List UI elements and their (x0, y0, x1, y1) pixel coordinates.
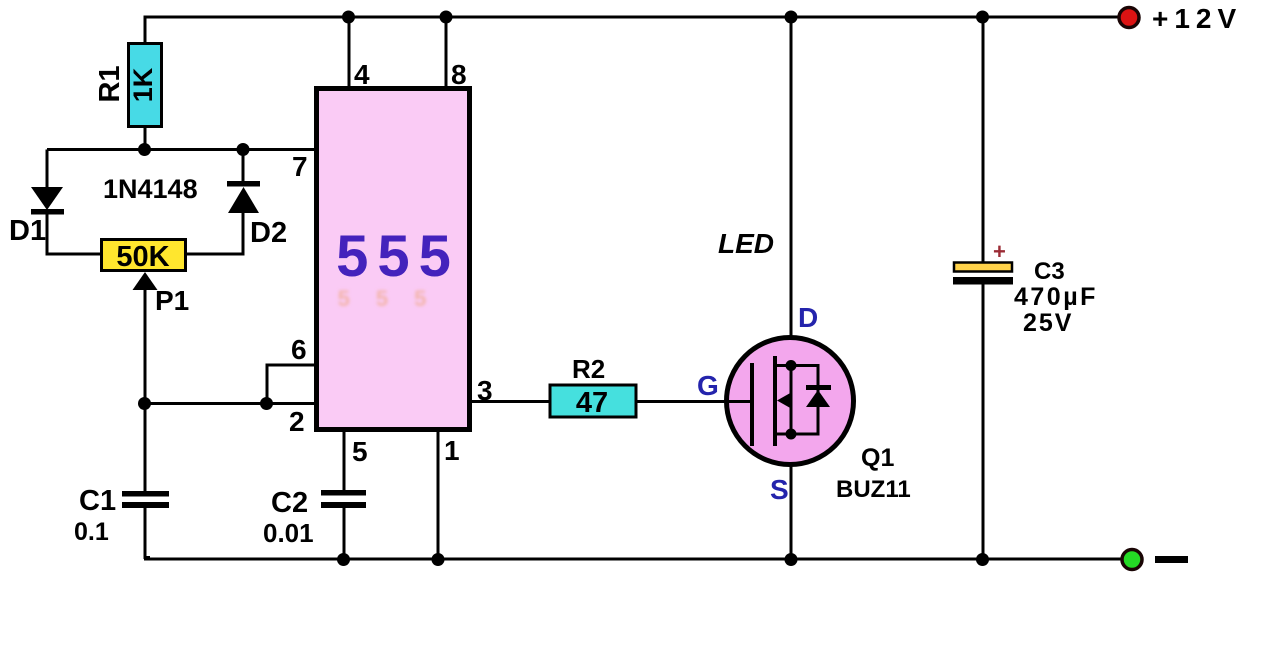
svg-text:LED: LED (718, 228, 774, 259)
diode D2 (227, 181, 260, 213)
label P1 (155, 285, 189, 316)
wire pin 2 (144, 402, 316, 405)
wire down to D1 (46, 150, 49, 189)
svg-text:1N4148: 1N4148 (103, 174, 198, 204)
value 50K (116, 241, 169, 273)
svg-text:D2: D2 (250, 217, 287, 249)
pin label 1 (444, 435, 460, 466)
svg-text:R1: R1 (94, 65, 126, 102)
resistor R2 (550, 385, 636, 417)
wire R1 bottom to junction (144, 127, 147, 150)
label C2 (271, 487, 308, 519)
svg-text:0.1: 0.1 (74, 518, 109, 546)
pin label 3 (477, 375, 493, 406)
wire horizontal to pin 7 (47, 148, 316, 151)
wire from top rail down to R1 (144, 16, 147, 45)
junction node source/ground (785, 553, 798, 566)
pin label 4 (354, 59, 370, 90)
pin label 7 (292, 151, 308, 182)
svg-text:25V: 25V (1023, 309, 1073, 337)
wire D2 top (242, 150, 245, 187)
junction node under R1 (138, 143, 151, 156)
Q1 body diode branch (791, 366, 831, 435)
node +12V terminal (1119, 8, 1139, 28)
svg-text:555: 555 (336, 224, 460, 289)
pin label 5 (352, 436, 368, 467)
wire C2 to ground rail (343, 508, 346, 560)
label D1 (9, 215, 46, 247)
svg-text:4: 4 (354, 59, 370, 90)
value 0.01 (263, 518, 314, 548)
junction node pin6/pin2 (260, 397, 273, 410)
svg-text:1K: 1K (128, 67, 158, 102)
svg-text:2: 2 (289, 406, 305, 437)
label D (drain) (798, 302, 818, 333)
svg-text:50K: 50K (116, 241, 169, 273)
svg-text:C2: C2 (271, 487, 308, 519)
label LED (718, 228, 774, 259)
svg-text:555: 555 (338, 286, 453, 311)
wiper arrow of P1 (133, 272, 158, 404)
wire D1 to pot (46, 214, 102, 254)
junction node pin2/C1 (138, 397, 151, 410)
transistor Q1 body (MOSFET circle) (727, 338, 854, 465)
Q1 drain-source internal wire (790, 365, 793, 434)
wire C3 bottom to ground rail (982, 284, 985, 560)
junction node pin8/rail (440, 11, 453, 24)
Q1 substrate arrow (777, 392, 792, 409)
capacitor C3 positive plate (954, 263, 1012, 272)
svg-text:0.01: 0.01 (263, 518, 314, 548)
svg-text:BUZ11: BUZ11 (836, 476, 911, 503)
capacitor C2 (321, 490, 366, 508)
junction node C3/ground rail (976, 553, 989, 566)
junction node pin1/ground (432, 553, 445, 566)
Q1 internal source node (786, 429, 797, 440)
svg-text:C1: C1 (79, 485, 116, 517)
label R1 (rotated) (94, 65, 126, 102)
resistor R1 (129, 44, 162, 127)
svg-text:C3: C3 (1034, 258, 1065, 285)
svg-text:47: 47 (576, 387, 608, 419)
value 25V (1023, 309, 1073, 337)
wire C3 top (982, 17, 985, 262)
wire D2 to pot (186, 212, 245, 256)
pin label 2 (289, 406, 305, 437)
svg-text:1: 1 (444, 435, 460, 466)
label D2 (250, 217, 287, 249)
svg-text:3: 3 (477, 375, 493, 406)
wire drain to top rail (LED line) (790, 17, 793, 340)
svg-text:Q1: Q1 (861, 444, 894, 472)
pin label 6 (291, 334, 307, 365)
svg-text:R2: R2 (572, 354, 605, 384)
svg-text:470µF: 470µF (1014, 283, 1098, 311)
svg-text:+: + (993, 239, 1006, 264)
Q1 channel bar (773, 356, 777, 446)
label R2 (572, 354, 605, 384)
wire pin 6 (267, 365, 316, 403)
junction node drain/rail (785, 11, 798, 24)
svg-text:S: S (770, 474, 789, 505)
label C3 (1034, 258, 1065, 285)
junction node above D2 (237, 143, 250, 156)
wire pin 5 down (343, 430, 346, 490)
svg-text:G: G (697, 370, 719, 401)
Q1 gate lead and gate bar (726, 363, 752, 446)
value 470uF (1014, 283, 1098, 311)
junction node C3/top rail (976, 11, 989, 24)
svg-text:5: 5 (352, 436, 368, 467)
svg-text:7: 7 (292, 151, 308, 182)
Q1 internal drain node (786, 360, 797, 371)
Q1 source stub (775, 433, 791, 436)
capacitor C3 negative plate (953, 277, 1013, 285)
svg-text:+12V: +12V (1152, 3, 1242, 34)
wire top +12V rail (144, 16, 1120, 19)
label G (gate) (697, 370, 719, 401)
svg-text:6: 6 (291, 334, 307, 365)
label 555 (336, 224, 460, 289)
wire pin 1 to ground rail (437, 430, 440, 560)
junction node C2/ground (337, 553, 350, 566)
IC U1 555 body (317, 89, 470, 430)
Q1 drain stub (775, 364, 791, 367)
svg-text:P1: P1 (155, 285, 189, 316)
potentiometer P1 body 50K (102, 240, 186, 271)
junction node pin4/rail (342, 11, 355, 24)
wire R2 to gate (636, 400, 730, 403)
label Q1 (861, 444, 894, 472)
capacitor C1 (122, 491, 169, 508)
value 0.1 (74, 518, 109, 546)
value 1K (rotated, inside R1) (128, 67, 158, 102)
wire bottom ground rail (144, 558, 1123, 561)
value 47 (576, 387, 608, 419)
label 1N4148 (103, 174, 198, 204)
svg-text:8: 8 (451, 59, 467, 90)
wire source to ground rail (790, 462, 793, 560)
label C1 (79, 485, 116, 517)
polarity + of C3 (993, 239, 1006, 264)
ghost watermark text inside 555 (338, 286, 453, 311)
label BUZ11 (836, 476, 911, 503)
label +12V (1152, 3, 1242, 34)
wire C1 to ground rail (144, 508, 150, 559)
svg-text:D: D (798, 302, 818, 333)
wire pin 4 to rail (348, 17, 351, 88)
svg-text:D1: D1 (9, 215, 46, 247)
wire junction to C1 (144, 403, 147, 491)
label S (source) (770, 474, 789, 505)
label minus terminal (1155, 556, 1188, 563)
wire pin 3 to R2 (470, 400, 550, 403)
pin label 8 (451, 59, 467, 90)
node negative terminal (1122, 550, 1142, 570)
diode D1 (31, 187, 64, 215)
wire pin 8 to rail (445, 17, 448, 88)
